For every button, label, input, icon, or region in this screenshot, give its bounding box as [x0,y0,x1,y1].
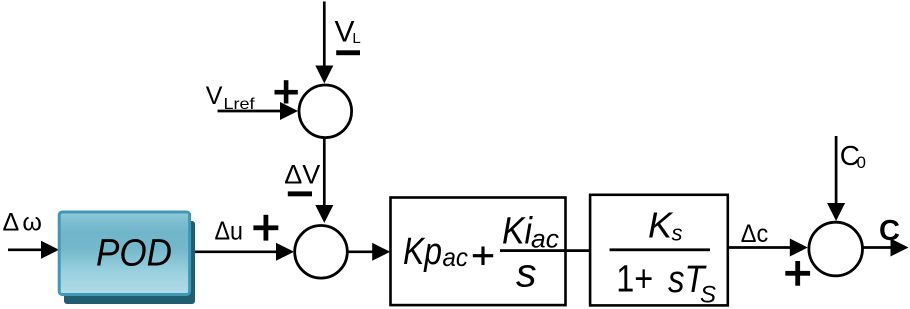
svg-text:V: V [206,82,223,110]
svg-text:s: s [672,221,683,246]
svg-text:S: S [700,282,716,309]
svg-text:1+: 1+ [616,259,653,301]
svg-text:K: K [648,205,674,246]
svg-text:0: 0 [857,153,866,172]
svg-text:C: C [879,215,900,247]
svg-text:Δc: Δc [741,220,769,248]
svg-text:Ki: Ki [502,211,533,253]
svg-text:ac: ac [531,224,559,254]
svg-text:L: L [352,30,360,47]
svg-text:s: s [516,251,537,295]
svg-text:Kp: Kp [403,231,442,273]
svg-text:Δω: Δω [3,208,46,236]
svg-text:Δu: Δu [215,216,244,246]
svg-text:Lref: Lref [224,96,256,113]
svg-text:ΔV: ΔV [284,160,320,190]
svg-text:ac: ac [443,242,469,272]
svg-text:POD: POD [96,233,172,275]
